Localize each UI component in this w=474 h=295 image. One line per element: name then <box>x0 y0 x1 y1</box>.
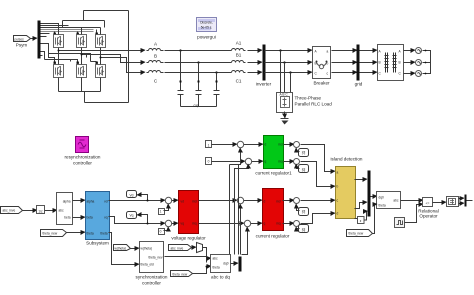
wire island out1 to mux <box>355 179 367 181</box>
svg-text:mq: mq <box>278 160 283 164</box>
inductor LB <box>147 54 164 63</box>
igbt Q1 <box>54 35 64 48</box>
svg-text:cap: cap <box>194 104 199 108</box>
svg-text:synchronization: synchronization <box>136 275 168 280</box>
ac source C <box>416 71 422 77</box>
sum S5 <box>294 198 300 204</box>
svg-text:Psym: Psym <box>16 43 28 48</box>
svg-text:a: a <box>327 50 329 54</box>
wire subsystem vd to sum1 <box>109 200 165 202</box>
inverter measurement bus <box>256 45 272 87</box>
wires grid bus to transformer <box>360 50 377 52</box>
phase lines mid span <box>165 51 229 73</box>
capacitor branch A <box>178 51 184 107</box>
svg-text:C1: C1 <box>236 79 242 84</box>
svg-text:beta: beta <box>64 216 70 220</box>
svg-text:abc_inve: abc_inve <box>3 209 16 213</box>
mux2 small <box>197 243 203 253</box>
current regulator block (red2) <box>256 189 290 239</box>
synchronization controller block <box>136 242 168 286</box>
svg-text:md: md <box>192 200 197 204</box>
capacitor branch C <box>214 73 220 107</box>
svg-text:5e-05 s.: 5e-05 s. <box>201 26 213 30</box>
subsystem block (blue) <box>86 192 110 246</box>
ac source A <box>416 48 422 54</box>
svg-text:alpha: alpha <box>63 200 71 204</box>
svg-text:theta_new: theta_new <box>173 273 188 277</box>
sum S10 <box>294 159 300 165</box>
wire from tag to bus <box>31 38 37 40</box>
switch block <box>447 197 459 207</box>
inductor LC <box>147 71 164 84</box>
svg-text:theta_nev: theta_nev <box>148 256 162 260</box>
feedback delay block <box>358 217 365 224</box>
svg-text:controller: controller <box>73 161 92 166</box>
svg-text:controller: controller <box>142 281 161 286</box>
svg-text:dq0: dq0 <box>379 196 385 200</box>
out mux bar <box>465 195 467 207</box>
source return bus <box>423 50 431 75</box>
svg-text:vd: vd <box>104 200 108 204</box>
from tag wthe <box>114 245 131 251</box>
wire S4 to creg <box>251 223 262 225</box>
svg-text:mq: mq <box>192 222 197 226</box>
wire K1 to S7 <box>212 144 237 146</box>
svg-text:B: B <box>399 61 401 65</box>
svg-text:1: 1 <box>208 144 210 148</box>
ground under load <box>281 112 289 125</box>
svg-text:B: B <box>154 54 157 59</box>
gate drops row1 <box>55 28 101 34</box>
sum S9 <box>294 142 300 148</box>
wires switch to out mux <box>459 198 464 200</box>
wire mux2 to abcdq <box>203 248 211 259</box>
svg-text:beta: beta <box>87 216 93 220</box>
breaker block <box>313 47 331 86</box>
goto tag Vq <box>127 212 137 219</box>
wire vd line to tag <box>138 195 148 201</box>
wire green to S9 <box>284 144 294 146</box>
wire subsystem vq to sum2 <box>109 217 165 224</box>
three-phase parallel RLC load <box>277 93 333 113</box>
svg-text:powergui: powergui <box>197 35 216 40</box>
svg-text:theta: theta <box>213 266 220 270</box>
constant 1 <box>159 209 165 215</box>
svg-text:Operator: Operator <box>419 214 438 219</box>
sum S6 <box>294 221 300 227</box>
constant K1 <box>206 141 212 148</box>
junction node A cap tap <box>179 49 181 51</box>
wire abc_inve2 to mux2 <box>192 247 196 249</box>
svg-text:abc to dq: abc to dq <box>211 275 230 280</box>
svg-text:dq0: dq0 <box>223 262 229 266</box>
gate fan row1 <box>41 24 82 37</box>
mux bar right of island <box>368 171 371 217</box>
svg-text:current regulator: current regulator <box>256 234 290 239</box>
svg-text:Discrete,: Discrete, <box>200 21 213 25</box>
svg-text:voltage regulator: voltage regulator <box>171 236 206 241</box>
wire green to S10 <box>284 161 294 163</box>
svg-text:B: B <box>379 61 381 65</box>
wire S10 to island in2 <box>301 162 335 187</box>
wire alpha to subsystem <box>73 200 85 202</box>
svg-text:resynchronization: resynchronization <box>64 155 100 160</box>
svg-text:abc: abc <box>59 209 65 213</box>
wire relational to switch <box>433 202 446 204</box>
wire vreg mq to S4 <box>199 223 244 225</box>
wire vreg md to S3 <box>199 200 237 202</box>
island detection block (yellow) <box>331 157 363 219</box>
svg-text:1/z: 1/z <box>38 210 43 214</box>
junction load tap A <box>279 49 281 51</box>
capacitor common bus <box>181 104 217 108</box>
junction leg3 mid <box>100 57 102 59</box>
svg-text:vd: vd <box>181 200 185 204</box>
long feed to S8 <box>235 165 249 255</box>
svg-text:theta: theta <box>100 232 107 236</box>
phase C feed <box>101 58 145 73</box>
from tag theta_new2 <box>347 230 373 237</box>
load drop wires <box>281 51 291 93</box>
svg-text:inverter: inverter <box>256 82 272 87</box>
phase A feed <box>59 50 145 52</box>
demux feed S3 arrow <box>240 205 242 255</box>
svg-text:abc: abc <box>213 257 219 261</box>
capacitor branch B <box>196 63 202 107</box>
from tag T10 <box>299 165 309 173</box>
svg-text:Subsystem: Subsystem <box>86 241 109 246</box>
wire S8 to green <box>252 161 263 163</box>
sum S4 <box>244 220 250 226</box>
svg-text:0: 0 <box>208 160 210 164</box>
svg-text:Vd: Vd <box>130 194 134 198</box>
wire delay to mux <box>364 212 367 221</box>
dq0 to abc block <box>377 192 401 209</box>
svg-text:Three-Phase: Three-Phase <box>295 96 322 101</box>
wire S7 to green <box>244 144 263 146</box>
from tag T5 <box>299 208 309 216</box>
sum S7 <box>237 141 243 147</box>
junction sync-theta <box>206 266 208 268</box>
svg-text:Breaker: Breaker <box>313 81 330 86</box>
svg-text:[d]: [d] <box>302 210 306 214</box>
junction leg2 mid <box>81 54 83 56</box>
svg-text:abc_inve: abc_inve <box>171 247 184 251</box>
svg-text:[q]: [q] <box>302 228 306 232</box>
svg-text:[d]: [d] <box>302 151 306 155</box>
from tag T6 <box>299 225 309 233</box>
svg-text:current regulator1: current regulator1 <box>255 171 292 176</box>
igbt Q3 <box>96 35 106 48</box>
wire S3 to creg <box>244 200 262 202</box>
svg-text:B1: B1 <box>236 53 242 58</box>
wire beta to subsystem <box>73 217 85 219</box>
svg-text:alpha: alpha <box>87 200 95 204</box>
svg-text:theta_new: theta_new <box>43 232 58 236</box>
inductor LB1 <box>229 53 246 63</box>
igbt Q2 <box>77 35 87 48</box>
demux bar <box>239 257 242 272</box>
svg-text:w(theta): w(theta) <box>141 247 153 251</box>
svg-text:vq: vq <box>181 222 185 226</box>
wire tag to delay <box>23 210 37 212</box>
wires bus to breaker <box>265 50 312 52</box>
igbt Q5 <box>77 65 87 78</box>
bus bar (pulse demux) <box>38 21 41 59</box>
wire wthe to sync <box>131 248 139 250</box>
constant 0 <box>159 229 165 235</box>
from tag Psym <box>14 36 31 48</box>
wire subsystem theta out down to sync <box>109 233 139 265</box>
wire T6 to S6 <box>297 228 300 229</box>
demux feed S4 <box>242 228 248 255</box>
junction vq tap <box>147 223 149 225</box>
inductor LC1 <box>229 71 246 84</box>
phase B feed <box>82 55 145 63</box>
svg-text:island detection: island detection <box>331 157 363 162</box>
igbt Q4 <box>54 65 64 78</box>
sample block <box>395 218 405 228</box>
igbt Q6 <box>96 65 106 78</box>
svg-text:md: md <box>276 200 281 204</box>
svg-text:theta_old: theta_old <box>141 263 154 267</box>
svg-text:md: md <box>278 143 283 147</box>
dc plus rail <box>55 11 129 103</box>
svg-text:grid: grid <box>355 82 363 87</box>
powergui block <box>197 18 217 40</box>
wire const0 to S2 <box>164 228 169 231</box>
wire island out2 to mux <box>355 203 367 209</box>
abc to alpha-beta block <box>57 193 73 225</box>
sum S2 <box>165 220 171 226</box>
junction leg1 mid <box>58 50 60 52</box>
svg-text:Parallel RLC Load: Parallel RLC Load <box>295 102 333 107</box>
inductor LA <box>147 42 164 51</box>
voltage regulator block (red) <box>171 191 206 241</box>
dc minus rail <box>59 78 129 103</box>
wire sample to relational <box>405 205 423 223</box>
svg-text:abc: abc <box>393 199 399 203</box>
sum S3 <box>237 197 243 203</box>
svg-text:A B C: A B C <box>280 93 289 97</box>
wire T5 to S5 <box>297 205 300 211</box>
junction node B cap tap <box>197 61 199 63</box>
wire S2 to vreg <box>172 223 178 225</box>
wire S5 to island in3 <box>301 200 335 202</box>
wire abcdq to demux <box>231 263 238 265</box>
out wire <box>467 200 473 202</box>
leg midpoint verticals <box>59 48 101 65</box>
constant K2 <box>206 158 212 165</box>
wire theta_new2 to dq0abc <box>373 205 377 234</box>
svg-text:q: q <box>264 222 266 226</box>
svg-text:[q]: [q] <box>302 168 306 172</box>
svg-text:d: d <box>265 143 267 147</box>
unit delay 1/z <box>37 206 45 214</box>
from tag T9 <box>299 149 309 157</box>
svg-text:Vq: Vq <box>130 214 134 218</box>
svg-text:theta_new: theta_new <box>349 232 364 236</box>
svg-text:a: a <box>337 171 339 175</box>
svg-text:vq: vq <box>104 216 108 220</box>
svg-text:d: d <box>264 200 266 204</box>
demux feed up to S3 <box>230 165 241 255</box>
junction load tap C <box>289 71 291 73</box>
wire S9 to island in1 <box>301 145 335 172</box>
abc to dq block <box>211 255 231 280</box>
junction node C cap tap <box>215 71 217 73</box>
wire vq line to tag <box>138 215 148 224</box>
wire theta to subsystem <box>67 232 85 234</box>
wire const1 to S1 <box>164 205 169 211</box>
svg-text:<=: <= <box>426 202 430 206</box>
from tag theta_new1 <box>41 230 67 237</box>
wire S1 to vreg <box>172 200 178 202</box>
svg-text:b: b <box>337 185 339 189</box>
inductor LA1 <box>229 41 246 51</box>
wire red2 to S6 <box>283 223 294 225</box>
wire delay to abc2ab <box>45 210 57 212</box>
wires to inverter bus <box>248 50 262 52</box>
svg-text:theta: theta <box>87 232 94 236</box>
from tag abc_inve2 <box>169 245 192 251</box>
wire mux to dq0abc <box>371 196 377 198</box>
sum S8 <box>245 158 251 164</box>
wires breaker to grid bus <box>332 50 357 52</box>
junction load tap B <box>283 61 285 63</box>
from tag theta_new3 <box>171 271 193 277</box>
svg-text:1: 1 <box>160 210 162 214</box>
svg-text:q: q <box>265 160 267 164</box>
wire S6 to island in4 <box>301 214 335 224</box>
relational operator block <box>418 198 438 219</box>
junction vd tap <box>147 200 149 202</box>
wire K2 to S8 <box>212 161 245 163</box>
wire red2 to S5 <box>283 200 294 202</box>
gate wires row2 <box>41 44 97 62</box>
svg-text:0: 0 <box>160 230 162 234</box>
transformer block <box>378 45 404 81</box>
ac source B <box>416 60 422 66</box>
svg-text:d: d <box>337 212 339 216</box>
long feed to S7 <box>230 149 241 255</box>
svg-text:mq: mq <box>276 222 281 226</box>
wire yellow corner to delay <box>355 218 358 220</box>
wire dq0abc to relational <box>401 200 423 202</box>
svg-text:theta: theta <box>379 204 386 208</box>
wire T9 to S9 <box>297 149 300 152</box>
goto tag Vd <box>127 191 137 198</box>
grid measurement bus <box>355 45 363 87</box>
current regulator1 block (green) <box>255 136 292 176</box>
from tag abc_inverter <box>1 207 23 214</box>
wire sync out <box>165 257 207 263</box>
wire theta_new3 to abcdq theta <box>193 267 211 274</box>
wires transformer to sources <box>404 50 415 52</box>
gate distribution braid <box>41 30 94 32</box>
svg-text:pulses: pulses <box>15 38 25 42</box>
svg-text:w(theta): w(theta) <box>115 247 127 251</box>
wire T10 to S10 <box>297 165 300 169</box>
svg-text:A1: A1 <box>236 41 242 46</box>
resynchronization controller block <box>64 137 100 166</box>
sum S1 <box>165 197 171 203</box>
